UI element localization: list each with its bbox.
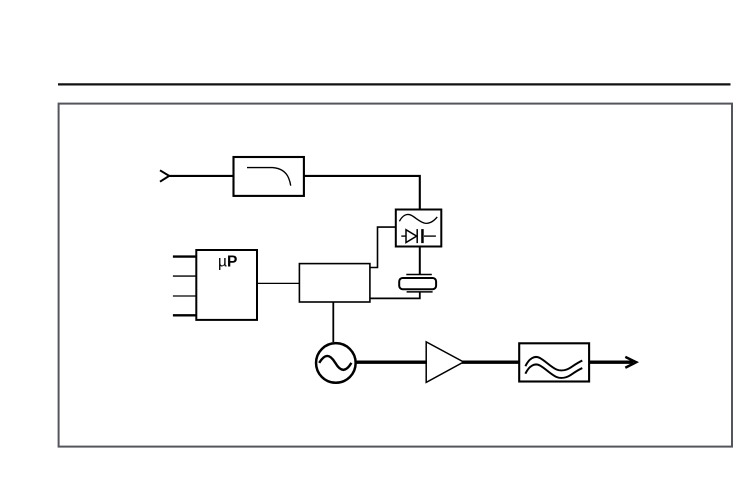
AM detector U2 box [396, 210, 442, 247]
output arrow [625, 357, 636, 368]
low-pass filter FL1 [234, 157, 304, 196]
wire: crystal to PLL [370, 292, 419, 299]
input port arrow [160, 170, 169, 181]
wire: BPF to output [589, 361, 633, 364]
wire: uP to PLL [257, 282, 299, 284]
label uP [218, 254, 237, 271]
amplifier A1 [426, 342, 463, 383]
wire: PLL to oscillator [332, 302, 334, 342]
oscillator G1 [316, 343, 356, 383]
detector capacitor plate [421, 229, 436, 243]
detector diode D1 [401, 229, 417, 243]
uP bus stub 2 [173, 275, 196, 277]
wire: PLL to detector [370, 227, 396, 267]
wire: LPF to detector [304, 176, 420, 210]
band-pass filter FL2 box [519, 343, 589, 381]
wire: input to LPF [169, 175, 234, 177]
uP bus stub 4 [173, 314, 196, 316]
band-pass wave upper [525, 357, 582, 370]
microprocessor U1 box [196, 250, 257, 320]
wire: amplifier to BPF [462, 361, 519, 364]
low-pass response curve [247, 168, 291, 186]
band-pass wave lower [525, 364, 582, 377]
wire: detector to crystal [419, 247, 421, 275]
uP bus stub 1 [173, 255, 196, 257]
crystal Y1 [399, 275, 436, 292]
outer frame [59, 104, 732, 447]
uP bus stub 3 [173, 295, 196, 297]
wire: oscillator to amplifier [356, 361, 427, 364]
top rule [58, 83, 731, 85]
svg-text:µP: µP [218, 254, 237, 271]
PLL U3 box [299, 264, 370, 302]
detector sine symbol [399, 214, 437, 223]
